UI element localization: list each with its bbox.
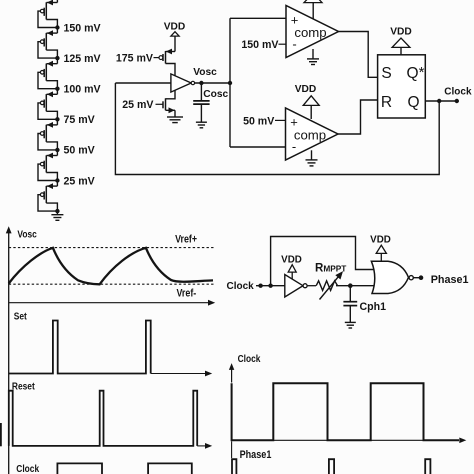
svg-text:Clock: Clock (444, 87, 472, 98)
svg-text:175 mV: 175 mV (116, 52, 153, 64)
ground (Cph1) (345, 322, 356, 328)
svg-text:25 mV: 25 mV (64, 175, 95, 187)
ground (Cosc) (196, 122, 207, 128)
transistor M1 (chain, drain node 150) (38, 0, 57, 27)
transistor M3 (chain, drain node 100) (38, 58, 57, 89)
wire (comp2 out to R) (338, 100, 378, 134)
svg-text:VDD: VDD (295, 84, 317, 95)
wire (Phase1 pulse 2) (329, 459, 334, 474)
wire (clock feedback loop) (115, 83, 439, 175)
power VDD (oscillator) (164, 21, 186, 51)
transistor M5 (chain, drain node 50) (38, 119, 57, 150)
label 150 mV (241, 39, 286, 51)
label 50 mV (243, 115, 285, 127)
node gnd (55, 209, 59, 213)
power VDD (comp2) (295, 84, 319, 119)
waveform Reset panel (12, 381, 212, 449)
op-amp U1 (oscillator inverter) (171, 74, 195, 92)
wire (Set trace with pulses) (9, 321, 151, 374)
wire (Phase1 output) (413, 274, 468, 286)
ground (chain) (51, 211, 63, 220)
power VDD (NOR gate) (370, 234, 391, 261)
ground (comp1) (307, 49, 319, 65)
SR latch U2 (378, 55, 426, 118)
power VDD (SR latch) (390, 27, 412, 55)
svg-text:Cph1: Cph1 (360, 301, 387, 313)
op-amp U3 (delay inverter) (285, 275, 316, 298)
svg-text:Q: Q (407, 94, 419, 111)
svg-text:Cosc: Cosc (203, 89, 228, 100)
wire (Clock square wave) (232, 383, 459, 440)
svg-text:50 mV: 50 mV (243, 115, 274, 127)
svg-text:125 mV: 125 mV (64, 53, 101, 65)
ground (comp2) (306, 150, 318, 166)
node Vosc (199, 81, 232, 85)
wire (inverter input) (115, 82, 170, 84)
svg-text:Vosc: Vosc (17, 229, 36, 240)
waveform axis (left vertical) (6, 226, 12, 474)
transistor MP (175 mV current source PMOS) (116, 49, 175, 76)
capacitor Cosc (193, 83, 228, 122)
node Cph1 top (348, 283, 353, 288)
node 25 (55, 175, 95, 187)
wire (clipped pulse at left edge) (0, 423, 2, 446)
svg-text:25 mV: 25 mV (122, 99, 153, 111)
node 125 (55, 53, 100, 65)
waveform Clock panel (left, clipped) (16, 463, 40, 474)
capacitor Cph1 (343, 286, 386, 322)
waveform Vosc panel (17, 229, 36, 240)
wire (Clock high pulse 2) (148, 463, 192, 474)
wire (Phase1 pulse 3) (425, 459, 430, 474)
svg-text:comp: comp (294, 128, 326, 143)
wire (Vosc waveform) (9, 248, 213, 284)
svg-text:100 mV: 100 mV (64, 84, 101, 96)
wire (Vosc to comparator inputs) (230, 18, 286, 147)
svg-text:Reset: Reset (12, 381, 35, 392)
resistor RMPPT (315, 263, 346, 300)
wire (Vosc output) (193, 67, 230, 83)
node 50 (55, 145, 95, 157)
svg-text:Q*: Q* (407, 64, 425, 82)
svg-text:comp: comp (294, 25, 326, 40)
wire (clock input) (256, 284, 285, 288)
waveform Clock (right) axes (229, 353, 466, 443)
node Vref+ dashed level (9, 234, 214, 248)
svg-text:Clock: Clock (238, 353, 262, 364)
svg-text:VDD: VDD (370, 234, 391, 245)
power VDD (comp1, clipped at top) (304, 0, 322, 19)
node 75 (55, 114, 95, 126)
wire (Clock high pulse 1) (57, 463, 102, 474)
node Vref- dashed level (9, 284, 214, 299)
power VDD (delay inverter) (281, 255, 302, 280)
transistor M4 (chain, drain node 75) (38, 89, 57, 120)
label Clock (phase gen input) (227, 281, 255, 292)
wire (Q output / Clock) (425, 100, 457, 102)
svg-text:VDD: VDD (281, 255, 302, 266)
svg-text:Vref+: Vref+ (175, 234, 197, 246)
node 150 (55, 22, 100, 34)
svg-text:Clock: Clock (16, 463, 40, 474)
node Clock (437, 87, 472, 104)
NOR gate U4 (371, 261, 413, 293)
svg-text:R: R (381, 94, 392, 111)
svg-text:S: S (381, 65, 391, 82)
svg-text:VDD: VDD (390, 27, 412, 38)
svg-text:RMPPT: RMPPT (315, 263, 346, 275)
svg-text:150 mV: 150 mV (64, 22, 101, 34)
ground (NMOS) (167, 117, 183, 123)
waveform Set panel (14, 311, 212, 376)
op-amp comp2 (lower comparator) (286, 108, 339, 160)
wire (resistor to NOR input) (336, 285, 375, 287)
transistor M6 (chain, drain node 25) (38, 150, 57, 181)
svg-text:VDD: VDD (164, 21, 186, 32)
wire (Phase1 pulse 1) (232, 459, 236, 474)
op-amp comp1 (upper comparator) (286, 6, 339, 58)
waveform Vosc x-axis (9, 300, 216, 306)
transistor M2 (chain, drain node 125) (38, 28, 57, 59)
svg-text:Vosc: Vosc (193, 67, 217, 78)
wire (clock bypass to NOR) (271, 237, 375, 286)
svg-text:Vref-: Vref- (177, 288, 197, 300)
svg-text:Clock: Clock (227, 281, 255, 292)
svg-text:Set: Set (14, 311, 27, 322)
transistor M7 (chain, drain node gnd) (38, 181, 57, 212)
transistor MN (25 mV sink NMOS) (122, 90, 175, 116)
waveform Phase1 (right, clipped) (232, 441, 272, 461)
svg-text:50 mV: 50 mV (64, 145, 95, 157)
svg-text:75 mV: 75 mV (64, 114, 95, 126)
wire (Reset trace with pulses) (9, 391, 197, 446)
svg-text:Phase1: Phase1 (431, 274, 469, 286)
node 100 (55, 84, 100, 96)
svg-text:150 mV: 150 mV (241, 39, 278, 51)
wire (comp1 out to S) (339, 32, 378, 78)
svg-text:Phase1: Phase1 (240, 449, 272, 461)
